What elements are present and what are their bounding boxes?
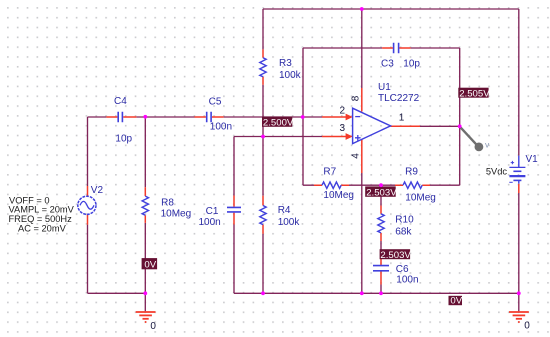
bias label 0V left	[142, 258, 158, 270]
svg-text:V1: V1	[526, 154, 539, 165]
wire output vertical	[459, 48, 461, 185]
bias label 2.503V mid	[365, 186, 397, 198]
ground 0 left	[136, 312, 157, 332]
svg-text:4: 4	[350, 153, 361, 159]
capacitor C6	[373, 259, 419, 285]
svg-text:U1: U1	[378, 82, 391, 93]
wire bottom rail	[234, 292, 519, 294]
resistor R9	[395, 166, 436, 203]
bias label 2.505V	[458, 88, 490, 100]
capacitor C5	[195, 97, 233, 133]
junction C6 bottom	[379, 291, 383, 295]
svg-text:C4: C4	[114, 96, 127, 107]
svg-text:C6: C6	[396, 264, 409, 275]
svg-text:10Meg: 10Meg	[405, 192, 436, 203]
resistor R7	[314, 167, 354, 202]
svg-text:2.505V: 2.505V	[459, 88, 490, 99]
resistor R4	[260, 196, 301, 234]
junction left ground	[143, 291, 147, 295]
svg-text:TLC2272: TLC2272	[378, 93, 420, 104]
wire R3 branch bottom	[262, 85, 264, 137]
wire V1 top branch	[518, 9, 520, 156]
svg-text:R8: R8	[161, 197, 174, 208]
svg-text:C3: C3	[381, 58, 394, 69]
svg-text:0: 0	[524, 321, 530, 332]
svg-text:100k: 100k	[278, 217, 301, 228]
bias label 2.503V lower	[380, 249, 412, 261]
resistor R10	[378, 206, 414, 242]
wire R3 branch top	[262, 9, 264, 49]
wire pin3 horizontal	[234, 136, 322, 138]
svg-text:2.503V: 2.503V	[380, 250, 411, 261]
capacitor C4	[106, 96, 136, 144]
svg-text:V2: V2	[91, 185, 104, 196]
junction top rail pin8	[360, 7, 364, 11]
junction output node	[458, 124, 462, 128]
svg-text:1: 1	[399, 112, 405, 123]
svg-text:0V: 0V	[144, 260, 156, 271]
svg-text:100n: 100n	[210, 121, 232, 132]
svg-text:2.503V: 2.503V	[366, 187, 397, 198]
op-amp U1	[322, 82, 420, 173]
svg-text:0: 0	[150, 321, 156, 332]
source V2 parameter text	[9, 195, 75, 233]
wire input horizontal	[88, 116, 323, 118]
resistor R3	[260, 49, 302, 84]
junction R7 R9 R10	[379, 183, 383, 187]
wire top rail	[263, 8, 519, 10]
svg-text:8: 8	[350, 95, 361, 101]
svg-text:2.500V: 2.500V	[263, 118, 294, 129]
wire left column V2	[88, 117, 146, 293]
bias label 0V right	[449, 296, 463, 307]
ground 0 right	[509, 312, 530, 332]
wire V1 bottom branch	[518, 193, 520, 293]
svg-text:68k: 68k	[395, 226, 412, 237]
svg-text:AC = 20mV: AC = 20mV	[18, 224, 67, 234]
svg-text:FREQ = 500Hz: FREQ = 500Hz	[9, 214, 73, 224]
svg-text:3: 3	[340, 123, 346, 134]
svg-text:0V: 0V	[450, 296, 462, 307]
resistor R8	[142, 187, 191, 223]
svg-text:2: 2	[340, 105, 346, 116]
wire R7 R9 horizontal	[303, 184, 460, 186]
junction C4 R8	[143, 115, 147, 119]
source V1 battery	[486, 154, 538, 193]
svg-text:R3: R3	[279, 58, 292, 69]
capacitor C3	[381, 43, 420, 70]
svg-text:C1: C1	[206, 206, 219, 217]
svg-text:R10: R10	[395, 214, 414, 225]
wire left ground stem	[144, 293, 146, 311]
wire pin8 branch	[361, 9, 363, 88]
svg-text:10Meg: 10Meg	[323, 190, 354, 201]
wire right ground stem	[518, 293, 520, 311]
svg-text:10Meg: 10Meg	[161, 208, 192, 219]
junction R4 bottom	[261, 291, 265, 295]
svg-text:R7: R7	[323, 167, 336, 178]
svg-text:R4: R4	[278, 205, 291, 216]
svg-text:10p: 10p	[403, 58, 420, 69]
bias label 2.500V	[262, 117, 294, 129]
junction pin3 node	[261, 135, 265, 139]
wire R10 C6 branch	[380, 185, 382, 293]
source V2	[78, 185, 104, 225]
junction pin2 node	[301, 115, 305, 119]
wire R8 branch	[144, 117, 146, 293]
svg-text:VAMPL = 20mV: VAMPL = 20mV	[9, 204, 75, 214]
wire output horizontal	[420, 125, 460, 127]
voltage probe marker	[461, 128, 490, 152]
wire R4 branch	[262, 136, 264, 293]
junction V1 ground	[517, 291, 521, 295]
junction pin4 bottom	[360, 291, 364, 295]
svg-text:C5: C5	[209, 97, 222, 108]
svg-text:100n: 100n	[199, 217, 221, 228]
wire C3 feedback top	[303, 47, 460, 49]
wire mid vertical node A	[302, 48, 304, 185]
svg-text:100n: 100n	[396, 274, 418, 285]
capacitor C1	[199, 196, 242, 229]
wire pin4 branch	[361, 173, 363, 293]
svg-text:R9: R9	[405, 166, 418, 177]
svg-text:5Vdc: 5Vdc	[486, 167, 508, 177]
svg-text:100k: 100k	[279, 70, 302, 81]
svg-text:10p: 10p	[115, 133, 132, 144]
wire C1 branch	[233, 137, 235, 294]
